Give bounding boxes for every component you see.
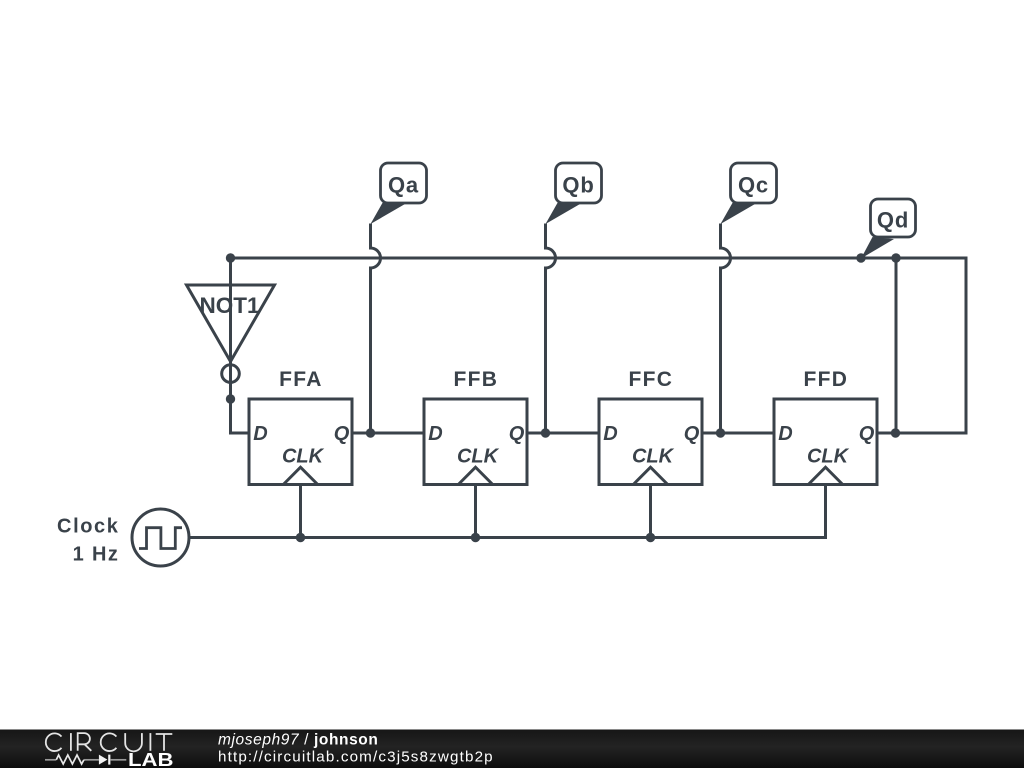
svg-text:http://circuitlab.com/c3j5s8zw: http://circuitlab.com/c3j5s8zwgtb2p: [218, 749, 494, 766]
svg-text:FFC: FFC: [629, 368, 674, 391]
svg-text:CLK: CLK: [807, 446, 850, 468]
svg-text:Q: Q: [509, 423, 525, 445]
svg-text:Q: Q: [684, 423, 700, 445]
svg-text:1 Hz: 1 Hz: [73, 544, 120, 566]
svg-text:mjoseph97 / johnson: mjoseph97 / johnson: [218, 732, 378, 749]
svg-text:CLK: CLK: [457, 446, 500, 468]
svg-text:D: D: [253, 423, 267, 445]
svg-text:CLK: CLK: [282, 446, 325, 468]
svg-text:NOT1: NOT1: [199, 293, 259, 318]
svg-text:Q: Q: [334, 423, 350, 445]
svg-text:D: D: [428, 423, 442, 445]
svg-text:FFA: FFA: [279, 368, 323, 391]
svg-text:CLK: CLK: [632, 446, 675, 468]
svg-text:FFD: FFD: [804, 368, 849, 391]
svg-text:Qb: Qb: [562, 173, 594, 198]
svg-text:Qa: Qa: [388, 173, 419, 198]
svg-text:D: D: [778, 423, 792, 445]
svg-text:Q: Q: [859, 423, 875, 445]
svg-text:FFB: FFB: [454, 368, 499, 391]
svg-text:Clock: Clock: [57, 516, 119, 538]
svg-text:Qd: Qd: [877, 208, 909, 233]
svg-text:Qc: Qc: [738, 173, 769, 198]
svg-text:LAB: LAB: [128, 750, 174, 768]
svg-text:D: D: [603, 423, 617, 445]
